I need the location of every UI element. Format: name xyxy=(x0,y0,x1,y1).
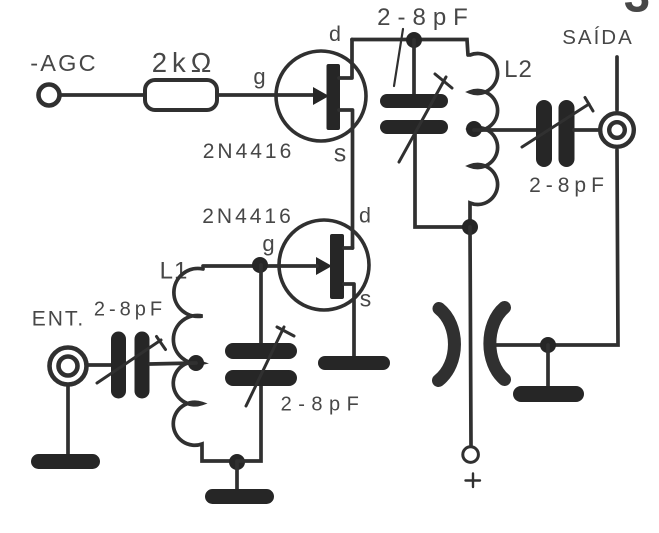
wire J2 down to ground G1 xyxy=(66,385,70,455)
node right junction xyxy=(540,337,556,353)
node L2 tap xyxy=(466,121,482,137)
capacitor C3 2-8pF trimmer xyxy=(380,74,452,162)
capacitor C5 feedthrough left plate xyxy=(439,309,455,381)
node L1 tap xyxy=(188,355,204,371)
terminal J1 -AGC xyxy=(39,85,60,106)
svg-text:-AGC: -AGC xyxy=(30,50,98,76)
transistor Q1 2N4416 xyxy=(276,40,366,249)
resistor R1 2k xyxy=(145,80,217,110)
wire junction to ground G4 xyxy=(546,345,550,387)
capacitor C4 2-8pF trimmer xyxy=(522,98,593,168)
wire C2 bottom to L1 bottom junction xyxy=(237,386,261,461)
wire L2 tap to C4 xyxy=(474,128,536,132)
capacitor C5 feedthrough right plate xyxy=(490,308,505,380)
svg-text:3: 3 xyxy=(624,0,650,22)
wire L1 top to Q2 gate xyxy=(203,264,317,268)
svg-text:L2: L2 xyxy=(504,56,533,83)
terminal + supply xyxy=(463,447,479,463)
ground G4 xyxy=(513,386,584,402)
wire C3 bottom to bottom junction xyxy=(415,134,469,227)
wire junction to C3 top xyxy=(412,40,416,95)
node bottom junction xyxy=(462,219,478,235)
wire C1 to L1 tap xyxy=(150,363,196,364)
inductor L2 xyxy=(470,54,498,228)
svg-text:2-8pF: 2-8pF xyxy=(377,4,475,31)
svg-text:ENT.: ENT. xyxy=(32,308,86,331)
wire R1 to Q1 gate xyxy=(217,93,314,97)
node Q2 gate junction xyxy=(252,257,268,273)
svg-text:2-8pF: 2-8pF xyxy=(94,299,166,321)
capacitor C1 2-8pF trimmer xyxy=(97,332,166,399)
transistor Q2 2N4416 xyxy=(279,220,369,357)
wire C4 to J3 xyxy=(574,128,599,132)
node L1 bottom junction xyxy=(229,454,245,470)
svg-text:2N4416: 2N4416 xyxy=(203,140,295,163)
svg-text:2kΩ: 2kΩ xyxy=(152,47,217,78)
svg-text:g: g xyxy=(262,231,274,256)
leader line from label to C3 xyxy=(394,29,403,86)
svg-text:2N4416: 2N4416 xyxy=(202,205,294,228)
ground G3 for Q2 source xyxy=(318,356,390,370)
wire J3 down to C5 node xyxy=(496,150,618,345)
wire top rail Q1 drain to L2 xyxy=(352,40,468,56)
svg-text:s: s xyxy=(334,140,347,168)
node junction top rail xyxy=(406,32,422,48)
label + xyxy=(466,474,481,488)
ground G1 xyxy=(31,454,100,469)
svg-text:d: d xyxy=(329,22,341,46)
wire supply line down to + terminal xyxy=(470,227,471,445)
ground G2 xyxy=(205,489,274,504)
wire gate junction down to C2 xyxy=(259,265,263,343)
wire SAIDA label to J3 xyxy=(615,57,619,110)
svg-text:d: d xyxy=(359,204,371,228)
wire J2 to C1 xyxy=(87,363,112,367)
svg-text:g: g xyxy=(253,64,265,89)
wire J1 to R1 xyxy=(60,93,145,97)
wire junction to ground G2 xyxy=(235,462,239,490)
svg-text:2-8pF: 2-8pF xyxy=(281,394,366,416)
svg-text:SAÍDA: SAÍDA xyxy=(562,26,634,49)
capacitor C2 2-8pF trimmer xyxy=(225,327,297,406)
terminal J3 SAIDA xyxy=(600,113,634,147)
svg-text:2-8pF: 2-8pF xyxy=(529,174,609,197)
inductor L1 xyxy=(173,268,237,461)
terminal J2 ENT xyxy=(50,348,87,385)
